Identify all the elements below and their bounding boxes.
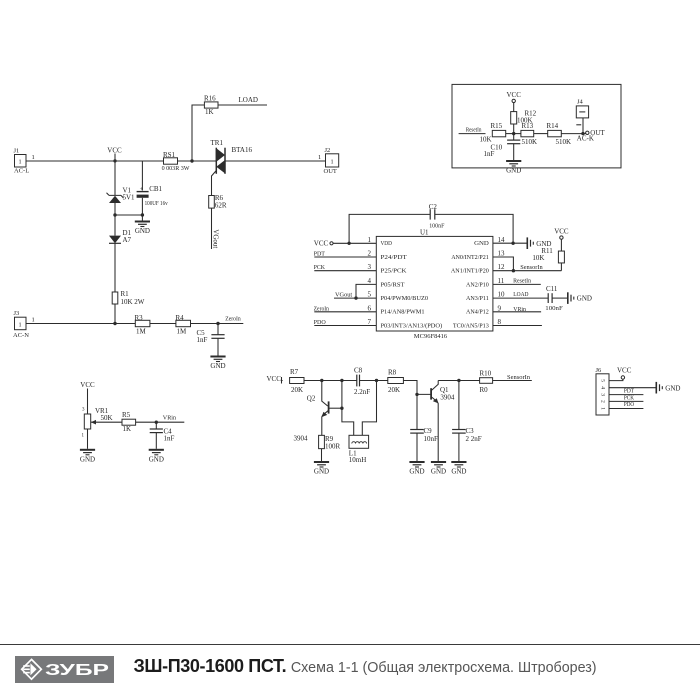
svg-text:1: 1 xyxy=(330,159,333,166)
ground below VR1 xyxy=(80,450,95,464)
net VGout pin5 xyxy=(334,292,376,299)
svg-text:SensorIn: SensorIn xyxy=(507,374,531,381)
svg-text:10K: 10K xyxy=(480,136,492,144)
svg-text:14: 14 xyxy=(498,236,506,244)
svg-text:5V1: 5V1 xyxy=(123,194,136,202)
svg-text:R15: R15 xyxy=(491,122,503,130)
svg-text:2: 2 xyxy=(368,250,372,258)
svg-text:510K: 510K xyxy=(556,138,572,146)
svg-text:OUT: OUT xyxy=(324,168,337,175)
svg-text:GND: GND xyxy=(409,468,424,476)
ground below R9 xyxy=(314,462,329,476)
capacitor CB1 100UF 16v xyxy=(137,161,169,215)
resistor R12 100K xyxy=(511,110,537,125)
svg-text:A7: A7 xyxy=(123,236,132,244)
svg-text:1: 1 xyxy=(32,317,35,324)
svg-text:R0: R0 xyxy=(480,386,489,394)
wire R10 to SensorIn xyxy=(493,380,532,382)
svg-text:GND: GND xyxy=(451,468,466,476)
wire C8 to R8 xyxy=(360,380,388,382)
logo icon xyxy=(22,659,42,679)
svg-text:7: 7 xyxy=(368,318,372,326)
svg-text:VCC: VCC xyxy=(617,366,632,374)
wire node to D1 xyxy=(115,215,142,236)
U1 right pin names xyxy=(451,240,489,329)
junction J4 pin xyxy=(581,132,584,135)
junction Q2 collector xyxy=(320,379,323,382)
wire R5 to VRin xyxy=(136,421,185,423)
wire AC-N bus xyxy=(26,323,135,325)
svg-text:J6: J6 xyxy=(596,367,603,374)
ground below Q1 xyxy=(431,462,446,476)
svg-text:10K: 10K xyxy=(532,254,544,262)
triac TR1 BTA16 xyxy=(211,139,253,174)
svg-text:SensorIn: SensorIn xyxy=(520,264,543,271)
wire triac gate xyxy=(212,171,217,196)
ground right of J6 pin4 xyxy=(656,382,680,394)
ground below C9 xyxy=(409,462,424,476)
wire R3 to R4 xyxy=(150,323,176,325)
capacitor C10 1nF xyxy=(484,134,521,160)
svg-text:2.2nF: 2.2nF xyxy=(354,388,370,396)
wire tank left branch xyxy=(342,381,354,436)
resistor R3 1M xyxy=(135,314,150,335)
net ResetIn pin11 xyxy=(493,278,541,285)
net LOAD pin10 xyxy=(493,291,548,298)
junction C2 left xyxy=(347,242,350,245)
wire Q1 collector to R10 xyxy=(438,380,479,382)
svg-text:VCC: VCC xyxy=(314,240,329,248)
svg-text:P04/PWM0/BUZ0: P04/PWM0/BUZ0 xyxy=(381,295,429,302)
svg-text:VCC: VCC xyxy=(267,375,282,383)
svg-text:62R: 62R xyxy=(215,202,227,210)
svg-text:VCC: VCC xyxy=(506,91,521,99)
svg-text:VCC: VCC xyxy=(554,228,569,236)
svg-text:10mH: 10mH xyxy=(349,456,367,464)
junction CB1 bottom xyxy=(141,213,144,216)
wire R1 to AC-N bus xyxy=(114,304,116,324)
resistor R1 10K 2W xyxy=(112,290,145,306)
footer rule xyxy=(0,644,700,645)
svg-text:Q2: Q2 xyxy=(307,394,316,402)
svg-text:AN3/P11: AN3/P11 xyxy=(466,295,489,302)
junction C4 xyxy=(155,421,158,424)
svg-text:C2: C2 xyxy=(429,203,438,211)
svg-text:1: 1 xyxy=(599,407,605,410)
net VRin pin9 xyxy=(493,306,541,313)
wire zener to node xyxy=(114,203,116,215)
svg-text:11: 11 xyxy=(498,277,505,285)
svg-text:1: 1 xyxy=(32,154,35,161)
transistor Q1 3904 xyxy=(431,381,455,462)
svg-text:PDO: PDO xyxy=(624,401,634,408)
title text xyxy=(134,656,694,677)
junction base/C9 xyxy=(415,393,418,396)
IC U1 MC96F8416 xyxy=(376,229,493,340)
svg-text:AN1/INT1/P20: AN1/INT1/P20 xyxy=(451,268,489,275)
svg-text:1: 1 xyxy=(82,434,85,439)
svg-text:2 2nF: 2 2nF xyxy=(466,435,482,443)
svg-text:1: 1 xyxy=(18,159,21,166)
svg-text:PCK: PCK xyxy=(314,264,326,271)
capacitor C3 2.2nF xyxy=(452,381,482,462)
wire AC-L from J1 to RS1 xyxy=(26,160,164,162)
resistor R13 510K xyxy=(521,122,537,146)
capacitor C5 1nF xyxy=(197,324,225,356)
svg-text:3: 3 xyxy=(368,263,372,271)
svg-text:AN0/INT2/P21: AN0/INT2/P21 xyxy=(451,254,489,261)
junction below zener xyxy=(113,213,116,216)
svg-text:510K: 510K xyxy=(522,138,538,146)
svg-text:VCC: VCC xyxy=(80,381,95,389)
capacitor C4 1nF xyxy=(150,422,175,449)
svg-text:J2: J2 xyxy=(325,147,331,154)
svg-text:3: 3 xyxy=(82,408,85,413)
svg-text:VDD: VDD xyxy=(381,240,393,247)
svg-text:3904: 3904 xyxy=(440,393,455,401)
svg-text:BTA16: BTA16 xyxy=(232,146,253,154)
zener V1 5V1 xyxy=(107,161,136,203)
svg-text:LOAD: LOAD xyxy=(239,96,258,104)
wire pin13 down to pin12 xyxy=(493,257,514,271)
resistor R7 20K xyxy=(290,368,304,394)
net SensorIn pin12 xyxy=(493,264,562,271)
resistor R15 10K xyxy=(480,122,506,144)
junction pin4/5 xyxy=(354,296,357,299)
svg-text:R7: R7 xyxy=(290,368,299,376)
svg-text:5: 5 xyxy=(368,291,372,299)
net PDO J6 pin1 xyxy=(609,401,643,408)
svg-text:3904: 3904 xyxy=(294,435,309,443)
svg-text:VGout: VGout xyxy=(335,292,352,299)
svg-text:VRin: VRin xyxy=(163,415,177,422)
svg-text:ResetIn: ResetIn xyxy=(513,278,532,285)
svg-text:U1: U1 xyxy=(420,229,429,237)
junction C2 right xyxy=(511,242,514,245)
wire R13 to R14 xyxy=(534,133,548,135)
svg-text:1M: 1M xyxy=(136,327,147,335)
net PCK pin3 xyxy=(314,264,377,271)
svg-text:10K 2W: 10K 2W xyxy=(121,298,145,306)
svg-text:R4: R4 xyxy=(176,314,185,322)
connector J4 xyxy=(576,99,588,134)
svg-text:AN2/P10: AN2/P10 xyxy=(466,281,489,288)
junction R1 bottom xyxy=(113,322,116,325)
svg-text:100nF: 100nF xyxy=(545,305,563,312)
wire tank right branch xyxy=(362,381,376,436)
power VCC above VR1 xyxy=(80,381,95,414)
svg-text:VGout: VGout xyxy=(211,229,219,248)
wire R9 to ground xyxy=(321,449,323,461)
wire pin1 xyxy=(333,242,376,244)
svg-text:R5: R5 xyxy=(122,411,131,419)
resistor R16 1K xyxy=(204,95,218,117)
svg-text:AC-K: AC-K xyxy=(577,135,594,143)
svg-text:20K: 20K xyxy=(388,386,400,394)
box output network xyxy=(452,84,621,167)
U1 left pin numbers xyxy=(368,236,372,326)
wire R11 to SensorIn xyxy=(560,263,562,271)
wire triac to J2 xyxy=(225,160,326,162)
svg-text:1: 1 xyxy=(318,154,321,161)
inductor L1 10mH xyxy=(349,435,369,464)
wire branch up to R16 xyxy=(192,105,205,161)
svg-text:3: 3 xyxy=(599,393,605,396)
svg-text:GND: GND xyxy=(431,468,446,476)
svg-text:TC0/AN5/P13: TC0/AN5/P13 xyxy=(453,322,489,329)
svg-text:J3: J3 xyxy=(14,310,20,317)
svg-text:10nF: 10nF xyxy=(424,435,439,443)
svg-text:2: 2 xyxy=(599,400,605,403)
junction R16 branch xyxy=(190,159,193,162)
resistor R4 1M xyxy=(176,314,191,335)
svg-text:R16: R16 xyxy=(204,95,216,103)
svg-text:PDT: PDT xyxy=(314,251,325,258)
connector J2 xyxy=(318,147,339,175)
resistor R10 R0 xyxy=(480,369,493,394)
transistor Q2 3904 xyxy=(294,381,342,443)
svg-text:P14/AN8/PWM1: P14/AN8/PWM1 xyxy=(381,309,425,316)
potentiometer VR1 50K xyxy=(84,407,122,429)
svg-text:GND: GND xyxy=(80,455,95,463)
svg-text:50K: 50K xyxy=(101,414,113,422)
wire ResetIn to R15 xyxy=(459,133,486,135)
connector J3 xyxy=(13,310,35,339)
svg-text:MC96F8416: MC96F8416 xyxy=(414,333,448,340)
net PDO pin7 xyxy=(314,319,377,326)
svg-text:1M: 1M xyxy=(177,327,188,335)
net OUT flag xyxy=(577,129,606,142)
svg-text:PDO: PDO xyxy=(314,319,326,326)
svg-text:P03/INT3/AN13/(PDO): P03/INT3/AN13/(PDO) xyxy=(381,322,443,329)
resistor R8 20K xyxy=(388,369,404,395)
net PDT J6 pin3 xyxy=(609,388,643,395)
svg-text:P24/PDT: P24/PDT xyxy=(381,254,407,261)
svg-text:1K: 1K xyxy=(205,108,214,116)
svg-text:J4: J4 xyxy=(577,99,584,106)
capacitor C11 100nF xyxy=(545,285,568,312)
junction C3 xyxy=(457,379,460,382)
svg-text:1K: 1K xyxy=(123,425,132,433)
wire D1 to R1 xyxy=(114,243,116,292)
svg-text:VRin: VRin xyxy=(513,306,526,313)
svg-text:8: 8 xyxy=(498,318,502,326)
junction Q2 base xyxy=(340,407,343,410)
svg-text:1nF: 1nF xyxy=(484,150,495,158)
svg-text:C11: C11 xyxy=(546,285,558,293)
svg-text:ZeroIn: ZeroIn xyxy=(225,316,241,323)
resistor R9 100R xyxy=(319,435,341,450)
net ZeroIn pin6 xyxy=(314,305,377,312)
svg-text:P05/RST: P05/RST xyxy=(381,281,405,288)
wire pin4 to pin5 xyxy=(356,284,376,298)
logo ZUBR xyxy=(15,656,114,683)
svg-text:20K: 20K xyxy=(291,386,303,394)
wire R7 to C8 xyxy=(304,380,357,382)
svg-text:GND: GND xyxy=(149,455,164,463)
wire R12 to node xyxy=(513,124,515,134)
wire pin14 to ground xyxy=(493,242,527,244)
svg-text:R14: R14 xyxy=(547,122,559,130)
connector J6 xyxy=(596,367,610,415)
ground below C5 xyxy=(210,357,225,371)
resistor R6 62R xyxy=(209,194,227,209)
svg-text:GND: GND xyxy=(314,468,329,476)
svg-text:AN4/P12: AN4/P12 xyxy=(466,309,489,316)
wire R15 to node xyxy=(506,133,521,135)
junction divider node xyxy=(512,132,515,135)
capacitor C8 2.2nF xyxy=(354,367,370,396)
svg-text:100UF 16v: 100UF 16v xyxy=(145,200,169,207)
ground below CB1 xyxy=(135,215,150,235)
svg-text:100nF: 100nF xyxy=(429,223,445,230)
junction VCC node xyxy=(113,159,116,162)
svg-text:1: 1 xyxy=(18,321,21,328)
wire J6 pin4 to ground xyxy=(609,387,656,389)
svg-text:ResetIn: ResetIn xyxy=(466,126,482,133)
net PCK J6 pin2 xyxy=(609,394,643,401)
svg-text:1: 1 xyxy=(368,236,372,244)
svg-text:AC-N: AC-N xyxy=(13,332,29,339)
svg-text:100R: 100R xyxy=(325,442,341,450)
svg-text:RS1: RS1 xyxy=(163,151,176,159)
svg-text:C8: C8 xyxy=(354,367,363,375)
svg-text:R10: R10 xyxy=(480,369,492,377)
svg-text:R3: R3 xyxy=(135,314,144,322)
svg-text:GND: GND xyxy=(577,295,592,303)
svg-text:GND: GND xyxy=(135,227,150,235)
ground right of pin14 xyxy=(527,237,551,249)
resistor R11 10K xyxy=(532,247,564,263)
diode D1 A7 xyxy=(109,229,132,244)
svg-text:10: 10 xyxy=(498,291,506,299)
junction tank left xyxy=(340,379,343,382)
net PDT pin2 xyxy=(314,251,377,258)
wire VR1 to ground xyxy=(87,429,89,449)
svg-text:GND: GND xyxy=(474,240,489,247)
resistor R5 1K xyxy=(122,411,136,433)
svg-text:GND: GND xyxy=(665,384,680,392)
svg-text:1nF: 1nF xyxy=(164,435,175,443)
capacitor C2 100nF xyxy=(349,203,513,243)
power VCC oscillator xyxy=(267,375,282,384)
svg-text:LOAD: LOAD xyxy=(513,291,528,298)
ground below C10 xyxy=(506,161,521,175)
resistor RS1 0.003R 3W xyxy=(162,151,191,172)
svg-text:6: 6 xyxy=(368,304,372,312)
svg-text:TR1: TR1 xyxy=(211,139,224,147)
ground below C4 xyxy=(149,450,164,464)
U1 right pin numbers xyxy=(498,236,506,326)
svg-text:CB1: CB1 xyxy=(149,185,162,193)
svg-text:R13: R13 xyxy=(522,122,534,130)
svg-text:+: + xyxy=(140,186,144,193)
wire R4 to ZeroIn xyxy=(191,323,244,325)
junction C5 xyxy=(216,322,219,325)
svg-text:AC-L: AC-L xyxy=(14,168,29,175)
capacitor C9 10nF xyxy=(410,395,438,461)
U1 left pin names xyxy=(381,240,443,329)
svg-text:4: 4 xyxy=(599,386,605,389)
power VCC at U1 pin 1 xyxy=(314,240,333,248)
wire R16 to LOAD xyxy=(218,104,267,106)
svg-text:J1: J1 xyxy=(14,148,20,155)
wire R8 to Q1 base xyxy=(404,381,432,395)
junction tank right xyxy=(375,379,378,382)
svg-text:ЗУБР: ЗУБР xyxy=(45,662,109,679)
svg-text:P25/PCK: P25/PCK xyxy=(381,268,407,275)
svg-text:VCC: VCC xyxy=(107,146,122,154)
connector J1 xyxy=(14,148,35,175)
power VCC above R11 xyxy=(554,228,569,252)
ground below C3 xyxy=(451,462,466,476)
ground right of C11 xyxy=(568,292,592,304)
resistor R14 510K xyxy=(547,122,572,146)
wire pin8 xyxy=(493,325,542,327)
svg-text:13: 13 xyxy=(498,250,506,258)
junction pin13/12 xyxy=(512,269,515,272)
svg-text:4: 4 xyxy=(368,277,372,285)
power VCC (top left) xyxy=(107,146,122,161)
wire VCC to R7 xyxy=(282,380,283,382)
power VCC at J6 pin5 xyxy=(609,366,632,380)
svg-text:1nF: 1nF xyxy=(197,336,208,344)
wire R6 to VGout xyxy=(211,208,213,249)
svg-text:5: 5 xyxy=(599,379,605,382)
svg-text:R1: R1 xyxy=(121,290,130,298)
power VCC above R12 xyxy=(506,91,521,112)
wire R14 to OUT xyxy=(561,133,585,135)
wire RS1 to triac xyxy=(178,160,217,162)
svg-text:GND: GND xyxy=(210,362,225,370)
svg-text:0 003R 3W: 0 003R 3W xyxy=(162,165,191,172)
svg-text:R8: R8 xyxy=(388,369,397,377)
svg-text:12: 12 xyxy=(498,263,506,271)
svg-text:ZeroIn: ZeroIn xyxy=(314,305,330,312)
svg-text:9: 9 xyxy=(498,304,502,312)
svg-text:GND: GND xyxy=(506,167,521,175)
